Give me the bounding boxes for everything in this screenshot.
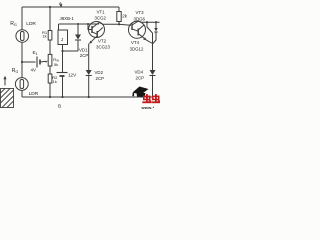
LDR RG2 bbox=[15, 78, 28, 91]
svg-text:2CP: 2CP bbox=[96, 76, 105, 81]
wire left column mid bbox=[21, 42, 23, 77]
wire R1 branch drop bbox=[49, 7, 51, 31]
svg-text:VT3: VT3 bbox=[136, 10, 145, 15]
wire top rail bbox=[22, 6, 119, 8]
wire Rw to R2 bbox=[49, 66, 51, 74]
svg-text:VT2: VT2 bbox=[98, 39, 107, 44]
watermark red glyphs bbox=[142, 94, 160, 103]
node A bbox=[60, 4, 62, 7]
wire relay bottom bbox=[62, 45, 64, 52]
wire VT3 emitter to VD4 column bbox=[146, 40, 153, 44]
wire VT3 collector rail bbox=[139, 21, 160, 22]
wire left column lower bbox=[21, 90, 23, 97]
transistor VT1 bbox=[89, 22, 105, 38]
svg-text:5k: 5k bbox=[54, 62, 58, 67]
LDR RG1 bbox=[16, 30, 29, 43]
svg-text:3DG12: 3DG12 bbox=[130, 47, 144, 52]
svg-text:3DG6: 3DG6 bbox=[134, 17, 146, 22]
resistor R1 bbox=[48, 31, 52, 41]
node collector line bbox=[59, 23, 100, 25]
svg-text:3CG23: 3CG23 bbox=[96, 45, 110, 50]
svg-text:VD1: VD1 bbox=[79, 47, 88, 52]
wire bottom rail bbox=[22, 96, 153, 98]
relay J bbox=[58, 30, 68, 45]
svg-text:3CG2: 3CG2 bbox=[95, 16, 107, 21]
diode VD1 bbox=[77, 24, 79, 35]
svg-text:VD2: VD2 bbox=[95, 70, 104, 75]
svg-text:B: B bbox=[58, 104, 61, 109]
svg-text:www.*: www.* bbox=[141, 105, 155, 110]
wire VT1 collector bbox=[99, 23, 119, 25]
svg-text:LDR: LDR bbox=[26, 21, 36, 27]
wire left column upper bbox=[21, 7, 23, 30]
svg-text:VT4: VT4 bbox=[131, 40, 140, 45]
svg-text:J8XB-1: J8XB-1 bbox=[60, 16, 75, 21]
svg-text:VT1: VT1 bbox=[97, 10, 106, 15]
svg-text:2CP: 2CP bbox=[80, 53, 89, 58]
diode VD3 bbox=[155, 22, 157, 28]
wire emitter/VD2 column bbox=[88, 44, 90, 71]
transistor VT4 bbox=[137, 29, 139, 36]
svg-text:2CP: 2CP bbox=[136, 76, 145, 81]
wire R1 to Rw bbox=[49, 40, 51, 54]
svg-text:1k: 1k bbox=[53, 79, 57, 84]
battery E 4V bbox=[36, 57, 38, 68]
resistor 2k bbox=[118, 7, 120, 12]
transistor VT3 bbox=[129, 21, 146, 38]
svg-text:1k: 1k bbox=[42, 34, 46, 39]
wire base hook bbox=[88, 24, 92, 30]
diode VD2 bbox=[86, 70, 92, 75]
node junction bbox=[21, 61, 23, 63]
transistor VT2 bbox=[96, 31, 98, 38]
wire R2 to rail bbox=[49, 83, 51, 97]
resistor R2 bbox=[48, 74, 52, 83]
svg-text:4V: 4V bbox=[31, 68, 36, 73]
svg-text:2k: 2k bbox=[122, 14, 127, 19]
watermark cap bbox=[132, 87, 148, 97]
battery 12V bbox=[62, 51, 64, 72]
wire 4V branch bbox=[22, 61, 36, 63]
diode VD4 bbox=[150, 70, 156, 75]
svg-text:LDR: LDR bbox=[29, 91, 39, 97]
hatched wall bbox=[1, 89, 14, 108]
labels bbox=[10, 1, 145, 108]
svg-text:VD4: VD4 bbox=[135, 70, 144, 75]
svg-text:12V: 12V bbox=[68, 73, 77, 78]
light arrow bbox=[4, 78, 6, 86]
potentiometer Rw bbox=[48, 54, 52, 66]
